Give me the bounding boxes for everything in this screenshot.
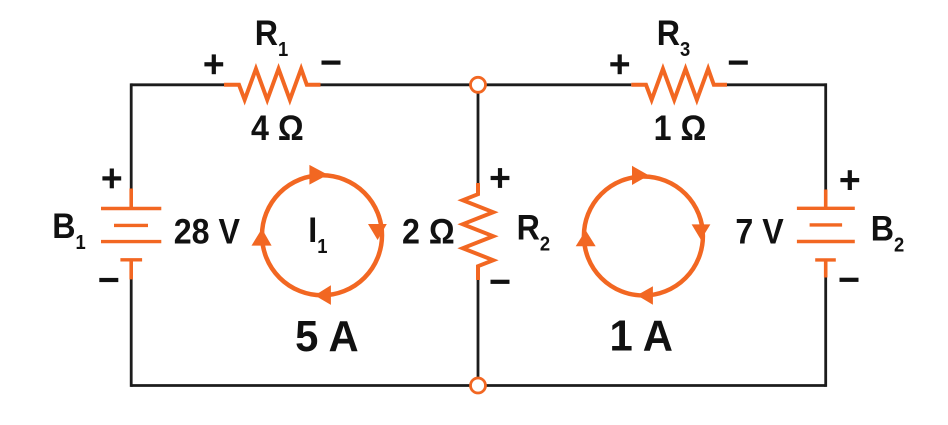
svg-text:1 A: 1 A	[609, 312, 672, 361]
minus sign R1	[322, 61, 341, 65]
svg-text:B1: B1	[52, 208, 86, 254]
plus sign B2	[840, 170, 859, 190]
wire right lower segment	[824, 278, 827, 387]
mesh current loop I2	[576, 166, 711, 305]
wire top-middle segment	[321, 83, 632, 86]
minus sign B1	[99, 278, 118, 282]
wire bottom-right segment	[478, 384, 826, 387]
wire right upper segment	[824, 83, 827, 189]
svg-text:4 Ω: 4 Ω	[251, 110, 304, 149]
battery B2	[797, 190, 855, 278]
wire top-right segment	[727, 83, 827, 86]
svg-text:R3: R3	[657, 15, 690, 61]
svg-text:28 V: 28 V	[174, 213, 241, 252]
plus sign R2	[491, 168, 510, 188]
resistor R1	[224, 69, 321, 100]
resistor R2	[463, 183, 493, 280]
svg-text:5 A: 5 A	[295, 312, 358, 361]
minus sign R2	[491, 280, 510, 284]
svg-text:R2: R2	[517, 209, 550, 255]
wire top-left segment	[131, 83, 224, 86]
node bottom (open junction)	[471, 378, 486, 393]
battery B1	[101, 189, 161, 280]
resistor R3	[631, 69, 727, 100]
svg-text:2 Ω: 2 Ω	[402, 213, 455, 252]
svg-text:7 V: 7 V	[735, 213, 784, 252]
node top (open junction)	[471, 77, 486, 92]
minus sign R3	[729, 61, 748, 65]
mesh current loop I1	[252, 165, 387, 305]
plus sign B1	[102, 169, 121, 189]
wire left upper segment	[130, 83, 133, 189]
plus sign R1	[204, 54, 223, 74]
wire bottom-left segment	[131, 384, 478, 387]
plus sign R3	[610, 54, 629, 74]
svg-text:1 Ω: 1 Ω	[654, 110, 707, 149]
svg-text:I1: I1	[308, 212, 327, 258]
svg-text:R1: R1	[255, 15, 289, 61]
wire middle upper segment	[477, 85, 480, 183]
svg-text:B2: B2	[871, 210, 904, 256]
wire left lower segment	[130, 279, 133, 387]
wire middle lower segment	[477, 280, 480, 386]
minus sign B2	[840, 278, 859, 282]
